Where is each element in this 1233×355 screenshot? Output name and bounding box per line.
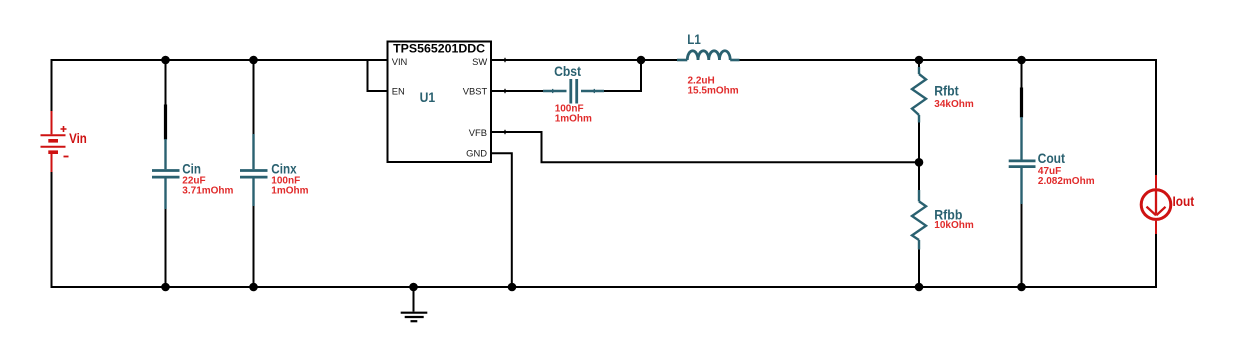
resistor Rfbb [912,162,926,287]
wire Cbst to SW node [640,60,642,92]
svg-text:10kOhm: 10kOhm [934,220,974,231]
svg-text:Rfbt: Rfbt [934,83,959,99]
svg-text:VBST: VBST [463,86,488,97]
node dot Cin bottom [161,283,170,292]
node dot Rfbb bottom [915,283,924,292]
node dot Rfbt top [915,56,924,65]
node dot Cinx top [249,56,258,65]
svg-text:Iout: Iout [1173,193,1195,209]
wire left rail lower [51,172,53,288]
op-amp U1 box TPS565201DDC [388,42,492,163]
svg-text:VIN: VIN [392,56,408,67]
svg-text:L1: L1 [687,31,701,47]
svg-text:Vin: Vin [69,130,87,146]
node dot feedback [915,158,924,167]
pin end tick SW [504,58,506,62]
svg-text:GND: GND [466,147,487,158]
svg-text:Cin: Cin [182,161,201,177]
capacitor Cout [1009,60,1036,287]
wire bottom rail [52,286,1157,288]
capacitor Cbst [491,79,641,104]
capacitor Cinx [240,60,268,287]
svg-text:TPS565201DDC: TPS565201DDC [393,42,485,56]
battery source Vin [41,111,69,172]
resistor Rfbt [912,60,926,162]
svg-text:EN: EN [392,86,405,97]
wire left rail upper [51,59,53,111]
node dot Cinx bottom [249,283,258,292]
pin end tick Cbst right [593,89,595,93]
svg-text:1mOhm: 1mOhm [271,185,308,196]
node dot SW/Cbst [637,56,646,65]
svg-text:Cbst: Cbst [554,63,581,79]
pin end tick VFB [504,130,506,134]
svg-text:3.71mOhm: 3.71mOhm [182,185,233,196]
wire right drop lower [1155,234,1157,288]
svg-text:SW: SW [472,56,487,67]
wire right drop upper [1155,59,1157,175]
wire L1 to output node [740,59,1158,61]
wire GND to bottom [491,153,512,287]
svg-text:Cout: Cout [1038,150,1066,166]
svg-text:VFB: VFB [469,127,487,138]
pin end tick Cbst left [552,89,554,93]
ground [401,287,428,321]
node dot Cin top [161,56,170,65]
pin end tick VBST [504,89,506,93]
wire SW pin to L1 [491,59,677,61]
wire EN jog [368,60,388,91]
current source Iout [1141,175,1171,234]
svg-text:2.082mOhm: 2.082mOhm [1038,176,1095,187]
node dot Cout top [1017,56,1026,65]
svg-text:15.5mOhm: 15.5mOhm [688,85,739,96]
svg-text:34kOhm: 34kOhm [934,99,974,110]
node dot Cout bottom [1017,283,1026,292]
wire top rail left [52,59,388,61]
node dot ground [409,283,418,292]
svg-text:1mOhm: 1mOhm [555,114,592,125]
svg-text:U1: U1 [420,89,436,105]
svg-text:Cinx: Cinx [271,161,296,177]
node dot GND pin bottom [508,283,517,292]
capacitor Cin [152,60,180,287]
inductor L1 [677,51,740,60]
wire VFB feedback [491,132,919,162]
